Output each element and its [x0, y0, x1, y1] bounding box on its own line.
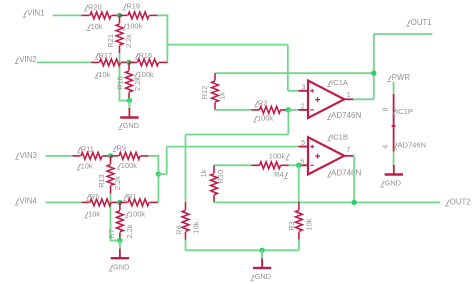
svg-text:R18: R18	[116, 76, 125, 90]
ground bottom-left	[109, 241, 130, 272]
resistor R18	[116, 62, 142, 100]
svg-text:2.2k: 2.2k	[113, 176, 122, 190]
pin label OUT1	[406, 18, 431, 27]
svg-text:2.2k: 2.2k	[133, 77, 142, 91]
ground bottom-center	[251, 250, 272, 281]
svg-text:100k: 100k	[269, 152, 286, 161]
op-amp IC1A	[308, 78, 361, 120]
resistor R7	[107, 202, 134, 240]
svg-text:GND: GND	[255, 272, 271, 281]
pin label VIN2	[15, 55, 37, 64]
resistor R12	[200, 73, 226, 110]
svg-text:100k: 100k	[129, 209, 145, 218]
wire pin5 line	[167, 146, 308, 148]
svg-text:R10: R10	[216, 170, 225, 184]
ground IC1P	[381, 165, 404, 187]
svg-text:10k: 10k	[91, 22, 103, 31]
svg-text:8: 8	[382, 107, 389, 111]
wire output7 column	[353, 156, 355, 203]
svg-text:2: 2	[301, 104, 305, 111]
svg-text:VIN3: VIN3	[20, 151, 37, 160]
svg-text:10k: 10k	[192, 221, 201, 233]
resistor R6	[174, 202, 200, 240]
wire R6 bottom	[185, 239, 187, 250]
wire top block right column	[166, 14, 168, 63]
svg-text:VIN4: VIN4	[19, 197, 37, 206]
wire mid column upper	[157, 155, 159, 174]
wire IC1B output	[344, 155, 354, 157]
svg-text:GND: GND	[113, 262, 129, 271]
pin label VIN3	[15, 151, 37, 160]
svg-text:3: 3	[302, 84, 306, 91]
svg-text:1k: 1k	[199, 169, 208, 177]
pin number 3	[302, 84, 306, 91]
wire R6 column	[185, 135, 187, 202]
wire output column	[373, 34, 375, 99]
svg-text:R7: R7	[107, 229, 116, 238]
svg-text:GND: GND	[123, 121, 139, 130]
svg-text:2.2k: 2.2k	[124, 34, 133, 48]
node junction J1	[117, 13, 122, 18]
pin label VIN1	[23, 9, 45, 18]
svg-text:AD746N: AD746N	[397, 141, 426, 150]
wire R10 to R4	[214, 164, 252, 166]
node feedback junction	[371, 71, 376, 76]
svg-text:R13: R13	[97, 174, 106, 188]
wire bottom gnd rail	[186, 249, 299, 251]
resistor R9	[111, 143, 149, 170]
svg-text:VIN2: VIN2	[19, 55, 36, 64]
pin number 6	[300, 159, 304, 166]
power part IC1P pin 4	[382, 128, 426, 152]
resistor R21	[106, 15, 133, 53]
ground top-left	[119, 101, 140, 130]
svg-text:R21: R21	[106, 34, 115, 48]
svg-text:R17: R17	[99, 51, 113, 60]
svg-text:10k: 10k	[88, 210, 100, 219]
node R7 bottom junction	[117, 238, 122, 243]
wire VIN3 net	[45, 155, 72, 157]
node OUT2 junction	[352, 200, 357, 205]
wire R21 bottom to gnd elbow	[119, 53, 130, 101]
svg-text:R20: R20	[88, 3, 102, 12]
wire to R6 top	[186, 134, 289, 136]
svg-text:OUT1: OUT1	[411, 18, 432, 27]
resistor R1	[120, 192, 158, 219]
wire R9 to corner	[149, 155, 159, 157]
svg-text:1: 1	[347, 92, 351, 99]
power part IC1P pin 8	[382, 94, 413, 124]
wire OUT1 net	[374, 33, 433, 35]
svg-text:6: 6	[300, 159, 304, 166]
pin label OUT2	[445, 198, 470, 207]
wire OUT2 rail	[214, 201, 440, 203]
resistor R11	[73, 145, 111, 171]
op-amp IC1B	[308, 132, 361, 177]
wire R4 to pin6	[289, 164, 309, 166]
wire to pin 3	[288, 90, 308, 92]
wire PWR net	[393, 82, 395, 95]
svg-text:10k: 10k	[305, 218, 314, 230]
wire R12 to R2	[214, 109, 252, 111]
wire to pin3 line	[167, 44, 287, 46]
wire pin6 column	[298, 165, 300, 202]
resistor R2	[252, 99, 289, 123]
svg-text:R11: R11	[81, 145, 94, 154]
node gnd rail junction	[259, 248, 264, 253]
wire IC1P gnd net	[393, 152, 395, 168]
svg-text:VIN1: VIN1	[27, 9, 44, 18]
svg-text:R1: R1	[127, 192, 136, 201]
svg-text:100k: 100k	[121, 161, 137, 170]
svg-text:R9: R9	[117, 143, 126, 152]
pin label PWR	[387, 73, 410, 82]
resistor R10	[199, 165, 225, 202]
node junction M	[156, 171, 161, 176]
resistor R20	[82, 3, 120, 32]
wire R13 bottom to gnd elbow	[110, 194, 120, 241]
power part IC1P marker	[391, 124, 396, 129]
node junction J3	[108, 153, 113, 158]
svg-text:R2: R2	[258, 99, 267, 108]
svg-text:AD746N: AD746N	[331, 111, 361, 120]
wire IC1A output	[344, 98, 374, 100]
svg-text:IC1B: IC1B	[331, 132, 348, 141]
svg-text:R6: R6	[174, 225, 183, 234]
wire row1 to corner	[158, 14, 169, 16]
pin label VIN4	[15, 197, 37, 206]
svg-text:5: 5	[301, 140, 305, 147]
resistor R19	[120, 2, 158, 31]
resistor R13	[97, 156, 122, 194]
wire elbow to pin5 line	[158, 147, 166, 175]
pin number 7	[347, 147, 351, 154]
wire VIN1 net	[53, 14, 82, 16]
svg-text:10k: 10k	[81, 162, 93, 171]
wire VIN2 net	[37, 61, 91, 63]
svg-text:1k: 1k	[217, 92, 226, 100]
svg-text:R3: R3	[287, 221, 296, 230]
svg-text:R16: R16	[139, 51, 153, 60]
svg-text:100k: 100k	[257, 114, 273, 123]
wire mid column lower	[157, 174, 159, 202]
wire R3 bottom	[298, 239, 300, 250]
resistor R5	[82, 192, 120, 219]
resistor R17	[91, 51, 129, 79]
wire pin2 node down	[287, 110, 289, 135]
svg-text:AD746N: AD746N	[331, 169, 361, 178]
svg-text:100k: 100k	[126, 22, 142, 31]
node pin2 junction	[286, 107, 291, 112]
resistor R4	[252, 152, 290, 180]
svg-text:R12: R12	[200, 86, 209, 100]
svg-text:R4: R4	[274, 170, 284, 179]
wire to pin 2	[288, 109, 308, 111]
node junction J4	[117, 200, 122, 205]
svg-text:PWR: PWR	[392, 73, 411, 82]
svg-text:10k: 10k	[98, 70, 110, 79]
pin number 1	[347, 92, 351, 99]
svg-text:4: 4	[382, 145, 389, 149]
svg-text:R5: R5	[90, 192, 99, 201]
svg-text:OUT2: OUT2	[450, 198, 471, 207]
svg-text:IC1A: IC1A	[331, 78, 349, 87]
pin number 2	[301, 104, 305, 111]
svg-text:IC1P: IC1P	[396, 107, 413, 116]
wire VIN4 net	[46, 201, 82, 203]
svg-text:2.2k: 2.2k	[125, 224, 134, 238]
wire feedback IC1A	[215, 72, 374, 74]
resistor R3	[287, 202, 313, 240]
node pin6 junction	[296, 163, 301, 168]
wire pin3 column	[287, 45, 289, 91]
svg-text:7: 7	[347, 147, 351, 154]
resistor R16	[129, 51, 167, 79]
svg-text:R19: R19	[126, 2, 140, 11]
pin number 5	[301, 140, 305, 147]
svg-text:GND: GND	[385, 178, 401, 187]
node junction J2	[126, 60, 131, 65]
node R18 bottom junction	[127, 98, 132, 103]
